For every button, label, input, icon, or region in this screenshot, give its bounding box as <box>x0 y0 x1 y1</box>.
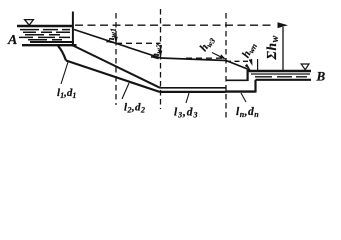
reservoir A right wall <box>72 12 74 47</box>
leader line for l1,d1 <box>61 62 68 84</box>
hw2 measure arrow <box>160 46 162 56</box>
leader line for l2,d2 <box>122 83 129 99</box>
water level marker (nabla) at B <box>301 64 309 70</box>
pipe bottom wall (sloping, segments 1-2) <box>66 61 160 93</box>
arrowhead at right end of reference line <box>278 22 289 28</box>
pipe segment n top wall <box>226 79 248 81</box>
dashed measure line after hw3 drop <box>226 60 249 62</box>
pipe n outlet right wall up to reservoir B bottom <box>254 80 256 93</box>
leader line for ln,dn <box>241 93 246 102</box>
pipe segment 3 top wall <box>160 87 226 89</box>
vertical dashed boundary pipe2|pipe3 <box>160 9 162 109</box>
reservoir B inner surface line <box>251 73 310 75</box>
reservoir A water hatching <box>19 30 70 40</box>
svg-text:A: A <box>7 33 17 48</box>
dashed reference line (initial energy level) <box>75 24 273 26</box>
energy grade line segment 1 <box>74 30 161 59</box>
pipe segment 3 bottom wall <box>160 91 226 93</box>
total head loss arrow line <box>282 27 284 71</box>
reservoir A bottom (upper line) <box>30 41 74 43</box>
vertical dashed boundary pipe1|pipe2 <box>115 13 117 105</box>
energy grade line segment 3 <box>226 61 250 71</box>
dashed measure line after hw1 drop <box>116 42 161 44</box>
dashed measure line after hw2 drop <box>186 57 226 59</box>
reservoir B left wall <box>247 70 249 81</box>
svg-text:B: B <box>316 69 326 84</box>
reservoir B bottom <box>256 79 312 81</box>
hw3 leader arrow <box>212 53 224 59</box>
reservoir B water hatching <box>255 76 307 78</box>
pipe bottom wall bend at tank A outlet <box>58 46 66 61</box>
leader line for l3,d3 <box>186 93 189 103</box>
reservoir A bottom (lower line) <box>22 44 77 46</box>
small tick above reservoir B surface <box>257 59 259 70</box>
water level marker (nabla) at A <box>25 20 34 26</box>
pipe segment n bottom wall <box>226 90 256 92</box>
reservoir A water surface <box>17 25 74 28</box>
hwn leader arrow <box>250 60 252 64</box>
arrowhead at end of energy line <box>245 64 251 70</box>
reservoir B water surface <box>247 70 312 72</box>
vertical dashed boundary pipe3|pipen <box>225 13 227 118</box>
energy grade line segment 2 <box>161 58 227 61</box>
hw1 measure arrow <box>115 35 117 42</box>
pipe top wall (sloping, segments 1-2) <box>73 46 160 88</box>
